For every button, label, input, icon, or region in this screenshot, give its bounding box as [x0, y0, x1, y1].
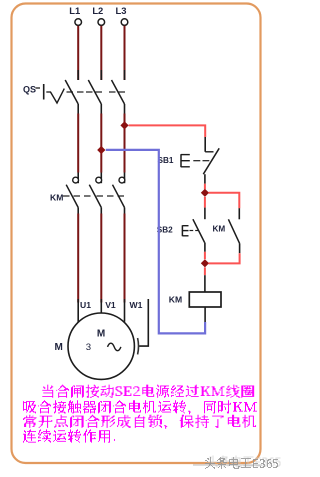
svg-text:M: M [55, 342, 63, 353]
wire motor lead [124, 299, 126, 322]
node L2 [92, 5, 104, 26]
wire latch branch top [209, 193, 240, 220]
svg-text:U1: U1 [80, 300, 91, 310]
svg-text:M: M [97, 328, 105, 339]
svg-text:QS: QS [23, 84, 36, 94]
svg-text:L3: L3 [116, 5, 127, 16]
switch QS pole 1 blade [65, 80, 78, 104]
caption line 1 [42, 385, 254, 398]
wire motor lead [77, 299, 79, 327]
wire L3 to QS [124, 26, 126, 80]
wire QS pole 1 to KM [77, 104, 79, 173]
contact KM aux (NO) blade [228, 219, 239, 243]
wire SB1 to junction [204, 174, 206, 189]
svg-text:W1: W1 [130, 300, 143, 310]
contactor KM linkage dashed line [63, 195, 124, 197]
coil KM [189, 292, 221, 307]
watermark [193, 456, 281, 470]
motor terminal arc [137, 338, 140, 354]
switch QS pole 2 blade [88, 80, 101, 104]
node junction L3 control tap [120, 121, 128, 129]
wire SB2 to junction 2 [204, 243, 206, 260]
node L1 [69, 5, 81, 26]
switch QS linkage dashed line [67, 91, 126, 93]
caption line 3 [23, 415, 256, 429]
wire latch branch bottom [209, 243, 240, 263]
node junction above SB2 [201, 189, 209, 197]
motor M 3~ [68, 313, 134, 379]
svg-text:3: 3 [86, 342, 91, 353]
svg-text:KM: KM [50, 192, 63, 202]
wire KM pole 1 to motor [77, 208, 79, 303]
wire KM pole 2 to motor [100, 208, 102, 303]
wire junction 2 to coil [204, 267, 206, 292]
wire coil bottom [204, 307, 206, 322]
wire motor right stub [139, 299, 148, 346]
switch QS handle [36, 84, 65, 103]
contactor KM main pole 2 [89, 173, 101, 208]
caption line 2 [23, 400, 257, 414]
wire QS pole 2 to KM [100, 104, 102, 173]
pushbutton SB1 (NC) [181, 148, 219, 174]
pushbutton SB2 (NO) [182, 219, 204, 242]
svg-text:KM: KM [169, 294, 182, 304]
svg-text:V1: V1 [105, 300, 116, 310]
wire junction to SB2 [204, 197, 206, 219]
wire motor lead [100, 299, 102, 313]
node junction L2 control tap [97, 146, 105, 154]
svg-text:KM: KM [213, 225, 226, 234]
wire blue neutral return [106, 150, 205, 334]
node L3 [116, 5, 128, 26]
wire KM pole 3 to motor [124, 208, 126, 303]
wire control feed L3 to SB1 [129, 125, 206, 137]
wire QS pole 3 to KM [124, 104, 126, 173]
svg-text:L1: L1 [69, 5, 80, 16]
caption line 4 [23, 429, 115, 442]
wire L2 to QS [100, 26, 102, 80]
wire L1 to QS [77, 26, 79, 80]
contactor KM main pole 3 [113, 173, 125, 208]
switch QS pole 3 blade [112, 80, 125, 104]
node junction below SB2 [201, 259, 209, 267]
svg-text:L2: L2 [92, 5, 103, 16]
svg-text:SB1: SB1 [158, 156, 174, 165]
contactor KM main pole 1 [66, 173, 78, 208]
